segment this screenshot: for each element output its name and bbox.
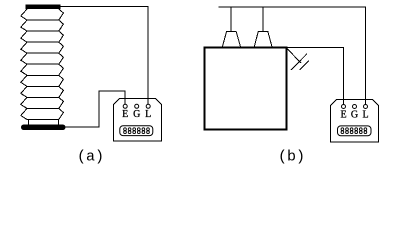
megger M1 scale window <box>120 126 153 136</box>
megger M2 terminal E post <box>342 105 346 109</box>
megger M2 scale window <box>338 126 372 136</box>
megger M1 terminal L post <box>146 104 150 108</box>
break mark 2 <box>300 61 309 71</box>
megger M1 case <box>114 99 162 142</box>
wire top electrode to megger terminal L (a) <box>61 7 149 105</box>
wire tank to megger terminal E (b) <box>287 48 344 105</box>
megger M1 terminal E post <box>123 104 127 108</box>
bushing lead 1 <box>230 7 232 31</box>
megger M1 scale digits 888888 <box>124 128 150 134</box>
bushing lead 2 <box>262 7 264 31</box>
svg-text:E: E <box>340 110 346 121</box>
transformer tank T <box>205 48 287 130</box>
arrester FB top electrode <box>26 5 61 10</box>
megger M1 terminal G post <box>135 104 139 108</box>
svg-text:L: L <box>145 109 151 120</box>
megger M2 scale digits 888888 <box>341 128 367 134</box>
svg-text:(a): (a) <box>77 149 104 166</box>
overhead line bus (b) <box>218 7 365 104</box>
break mark 1 <box>291 54 307 70</box>
svg-text:L: L <box>362 110 368 121</box>
megger M2 case <box>331 100 379 143</box>
bushing B1 <box>222 31 241 47</box>
arrester FB bottom electrode <box>21 125 66 131</box>
disconnected ground lead <box>287 49 301 64</box>
arrester FB body sheds right profile <box>59 9 64 120</box>
bushing B2 <box>254 31 272 47</box>
arrester FB base stems <box>29 120 59 125</box>
wire bottom electrode to megger terminal E (a) <box>66 91 126 127</box>
megger M2 terminal L post <box>364 105 368 109</box>
svg-text:(b): (b) <box>278 149 305 166</box>
svg-text:G: G <box>351 110 358 121</box>
arrester FB body sheds left profile <box>21 9 27 120</box>
megger M2 terminal G post <box>353 105 357 109</box>
svg-text:E: E <box>122 109 128 120</box>
svg-text:G: G <box>133 109 140 120</box>
arrester FB shed lines <box>27 20 59 119</box>
